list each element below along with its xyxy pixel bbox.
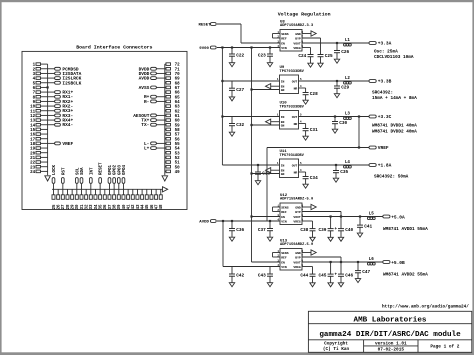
wire: [41, 156, 48, 158]
capacitor C35: [333, 165, 348, 178]
svg-text:I2SBCLK: I2SBCLK: [62, 80, 81, 86]
ground: [333, 178, 338, 182]
capacitor C31: [303, 124, 318, 137]
svg-text:C44: C44: [300, 274, 308, 279]
svg-text:GPO3: GPO3: [118, 164, 122, 175]
J2 pin 59: [166, 123, 180, 128]
wire: [127, 189, 129, 195]
junction: [221, 80, 223, 82]
wire: [41, 152, 48, 154]
wire +1.8A rail: [299, 164, 370, 166]
regulator U11 TPS79318DBV: [277, 150, 305, 177]
junction: [359, 215, 361, 217]
ground: [229, 237, 234, 241]
net RST: [61, 167, 66, 195]
svg-text:ADP7159ARDZ-3.3: ADP7159ARDZ-3.3: [280, 24, 314, 28]
net +1.8A: [369, 163, 392, 169]
svg-text:REF: REF: [281, 36, 287, 40]
J3 pin 36: [103, 195, 108, 210]
wire VREF: [358, 117, 360, 148]
net I2SBCLK: [41, 80, 82, 86]
J2 pin 69: [166, 77, 180, 82]
svg-text:WM8741 DVDD1 40mA: WM8741 DVDD1 40mA: [372, 124, 417, 129]
svg-text:69: 69: [175, 78, 181, 82]
J2 pin 65: [166, 95, 180, 100]
wire bus to U11: [252, 173, 280, 175]
net DVDD: [139, 66, 166, 72]
J2 pin 61: [166, 114, 180, 119]
ground: [328, 283, 333, 287]
svg-text:19: 19: [30, 148, 36, 152]
J3 pin 35: [99, 195, 104, 210]
svg-text:VIN: VIN: [281, 265, 287, 269]
svg-text:OUT: OUT: [292, 115, 298, 119]
wire: [165, 105, 166, 107]
ground: [303, 184, 308, 188]
J1 pin 17: [30, 137, 40, 142]
svg-text:C25: C25: [325, 54, 333, 59]
wire right pin bus: [164, 64, 166, 175]
svg-text:IN: IN: [281, 163, 285, 167]
ground: [229, 63, 234, 67]
J1 pin 19: [30, 147, 40, 152]
svg-text:43: 43: [137, 204, 141, 210]
svg-text:52: 52: [175, 157, 181, 161]
net AESOUT: [133, 113, 166, 119]
net INT: [89, 167, 94, 195]
svg-text:VREG: VREG: [293, 265, 301, 269]
wire: [66, 189, 68, 195]
junction: [330, 215, 332, 217]
svg-text:10: 10: [30, 106, 36, 110]
wire: [165, 156, 166, 158]
net RX2+: [41, 99, 74, 105]
svg-text:(C) Ti Kan: (C) Ti Kan: [323, 347, 350, 352]
wire: [41, 128, 48, 130]
svg-text:C35: C35: [340, 170, 348, 175]
svg-text:C42: C42: [236, 274, 244, 279]
junction: [334, 115, 336, 117]
svg-text:C26: C26: [341, 50, 349, 55]
J3 pin 46: [150, 195, 155, 210]
wire AVDD rail: [217, 220, 280, 222]
svg-text:60: 60: [175, 120, 181, 124]
net 9V00: [199, 46, 216, 51]
wire: [165, 91, 166, 93]
svg-text:VOUT: VOUT: [293, 41, 301, 45]
svg-text:C24: C24: [298, 54, 306, 59]
svg-text:L2: L2: [345, 77, 351, 81]
svg-text:C39: C39: [318, 228, 326, 233]
J2 pin 71: [166, 67, 180, 72]
net SDA: [80, 167, 85, 195]
ground: [355, 279, 360, 283]
svg-text:C34: C34: [310, 176, 318, 181]
ground: [338, 283, 343, 287]
svg-text:+1.8A: +1.8A: [378, 163, 392, 169]
capacitor C39: [318, 217, 333, 238]
svg-text:Voltage Regulation: Voltage Regulation: [278, 12, 331, 18]
svg-text:53: 53: [175, 152, 181, 156]
svg-text:NR: NR: [294, 170, 298, 174]
svg-text:25: 25: [53, 204, 57, 210]
svg-text:51: 51: [175, 162, 181, 166]
wire: [165, 110, 166, 112]
junction: [250, 172, 252, 174]
net I2SLRCK: [41, 76, 82, 82]
svg-text:SCL: SCL: [76, 167, 80, 175]
svg-text:C32: C32: [236, 123, 244, 128]
wire: [41, 133, 48, 135]
ground bus arrow: [162, 176, 168, 181]
svg-text:VOUT: VOUT: [293, 215, 301, 219]
svg-text:VREG: VREG: [293, 46, 301, 50]
svg-text:59: 59: [175, 124, 181, 128]
wire 9V00 to U11 IN: [222, 164, 279, 166]
wire: [104, 189, 106, 195]
svg-text:24: 24: [30, 171, 36, 175]
wire: [165, 82, 166, 84]
net RX3+: [41, 108, 74, 114]
wire: [41, 170, 48, 172]
net GPO4: [122, 164, 127, 194]
junction: [250, 88, 252, 90]
wire AVDD to U13: [222, 221, 224, 267]
svg-text:C27: C27: [236, 88, 244, 93]
svg-text:+5.0A: +5.0A: [391, 214, 405, 220]
wire U9 NR: [299, 87, 306, 89]
svg-text:11: 11: [30, 110, 36, 114]
ground: [310, 283, 315, 287]
capacitor C33: [255, 165, 270, 181]
svg-text:C31: C31: [310, 128, 318, 133]
svg-text:RST: RST: [62, 167, 66, 175]
flag U10 EN: [266, 119, 271, 124]
capacitor C41: [357, 217, 372, 234]
capacitor C38: [300, 221, 315, 237]
J1 pin 22: [30, 161, 40, 166]
J3 pin 25: [52, 195, 57, 210]
net RX3-: [41, 113, 74, 119]
inductor L4: [344, 161, 352, 168]
J2 pin 63: [166, 105, 180, 110]
svg-text:39: 39: [118, 204, 122, 210]
svg-text:BYP: BYP: [295, 210, 301, 214]
ground: [303, 100, 308, 104]
svg-text:OUT: OUT: [292, 79, 298, 83]
J1 pin 20: [30, 151, 40, 156]
J1 pin 24: [30, 170, 40, 175]
wire 9V00 rail: [217, 47, 280, 49]
wire +3.3C rail: [299, 116, 370, 118]
ground: [255, 181, 260, 185]
svg-text:28: 28: [67, 204, 71, 210]
inductor L1: [344, 39, 352, 46]
wire: [160, 189, 162, 195]
junction: [269, 220, 271, 222]
svg-text:EN: EN: [281, 41, 285, 45]
svg-text:L4: L4: [345, 161, 351, 165]
ground: [334, 59, 339, 63]
svg-text:38: 38: [114, 204, 118, 210]
svg-text:68: 68: [175, 82, 181, 86]
svg-text:C40: C40: [345, 228, 353, 233]
svg-text:34: 34: [95, 204, 99, 210]
flag U9 EN: [266, 84, 271, 89]
svg-text:http://www.amb.org/audio/gamma: http://www.amb.org/audio/gamma24/: [382, 304, 469, 309]
wire U8 VREG: [302, 47, 311, 49]
svg-text:56: 56: [175, 138, 181, 142]
J1 pin 3: [33, 72, 41, 77]
capacitor C25: [318, 38, 333, 63]
J1 pin 21: [30, 156, 40, 161]
svg-text:47: 47: [156, 204, 160, 210]
inductor L5: [367, 212, 375, 219]
J1 pin 11: [30, 109, 40, 114]
capacitor C27: [229, 81, 244, 97]
svg-text:GPO4: GPO4: [123, 164, 127, 175]
net RESET: [99, 162, 104, 195]
wire 9V00 to U9 IN: [222, 80, 279, 82]
wire left pin bus: [47, 64, 49, 175]
svg-text:TPS79333DBV: TPS79333DBV: [280, 106, 305, 110]
net RX1+: [41, 90, 74, 96]
svg-text:+5.0B: +5.0B: [391, 260, 405, 266]
capacitor C45: [318, 262, 333, 283]
wire: [165, 128, 166, 130]
net RX4-: [41, 122, 74, 128]
wire +5.0B rail: [302, 261, 383, 263]
svg-text:54: 54: [175, 148, 181, 152]
svg-text:GND: GND: [295, 205, 301, 209]
net RX1-: [41, 94, 74, 100]
svg-text:AVSS: AVSS: [139, 85, 150, 91]
wire bus to U10: [252, 124, 280, 126]
svg-text:41: 41: [128, 204, 132, 210]
J1 pin 2: [33, 67, 41, 72]
wire: [41, 86, 48, 88]
wire: [155, 189, 157, 195]
svg-text:72: 72: [175, 64, 181, 68]
svg-text:SRC4392:: SRC4392:: [372, 90, 393, 95]
wire U13 SENS REF tie: [273, 252, 281, 254]
net I2SDATA: [41, 71, 82, 77]
junction: [269, 46, 271, 48]
J1 pin 9: [33, 100, 41, 105]
J3 pin 42: [131, 195, 136, 210]
J3 pin 45: [145, 195, 150, 210]
regulator U8 ADP7159ARDZ-3.3: [277, 20, 314, 51]
svg-text:13: 13: [30, 120, 36, 124]
svg-text:EN: EN: [281, 260, 285, 264]
wire U12 VREG: [302, 220, 313, 222]
svg-text:RESET: RESET: [100, 162, 104, 175]
svg-text:RESET: RESET: [199, 23, 212, 27]
wire: [165, 161, 166, 163]
capacitor C42: [229, 267, 244, 283]
wire U12 EN: [252, 216, 281, 218]
svg-text:Page 1 of 2: Page 1 of 2: [430, 345, 459, 350]
svg-text:31: 31: [81, 204, 85, 210]
J2 pin 49: [166, 170, 180, 175]
junction: [231, 46, 233, 48]
net DVDD: [139, 71, 166, 77]
junction: [221, 115, 223, 117]
svg-text:SRC4392: 50mA: SRC4392: 50mA: [374, 174, 409, 179]
net RESET: [199, 23, 217, 28]
wire: [41, 161, 48, 163]
J3 pin 30: [75, 195, 80, 210]
svg-text:VREG: VREG: [293, 219, 301, 223]
svg-text:17: 17: [30, 138, 36, 142]
ground: [229, 132, 234, 136]
inductor L3: [344, 112, 352, 119]
capacitor C36: [229, 221, 244, 237]
wire 9V00 to U10 IN: [222, 116, 279, 118]
svg-text:C41: C41: [364, 225, 372, 230]
wire: [165, 138, 166, 140]
svg-text:49: 49: [175, 171, 181, 175]
J2 pin 56: [166, 137, 180, 142]
inductor L6: [367, 258, 375, 265]
wire: [165, 152, 166, 154]
wire U12 GND to flag: [302, 206, 311, 208]
J2 pin 51: [166, 161, 180, 166]
J2 pin 52: [166, 156, 180, 161]
svg-text:18: 18: [30, 143, 36, 147]
svg-text:L5: L5: [369, 212, 375, 216]
svg-text:GPO2: GPO2: [114, 164, 118, 175]
wire enable bus down: [251, 48, 253, 263]
capacitor C24: [298, 48, 313, 64]
svg-text:ADP7159ARDZ-5.0: ADP7159ARDZ-5.0: [280, 198, 313, 202]
J1 pin 7: [33, 91, 41, 96]
svg-text:VIN: VIN: [281, 46, 287, 50]
ground: [267, 237, 272, 241]
J3 pin 38: [113, 195, 118, 210]
net AVDD: [199, 220, 216, 225]
svg-text:WM8741 AVDD1 55mA: WM8741 AVDD1 55mA: [383, 227, 428, 232]
svg-text:C28: C28: [310, 92, 318, 97]
svg-text:AVDD: AVDD: [199, 221, 209, 225]
svg-text:R-: R-: [144, 99, 149, 105]
wire: [41, 63, 48, 65]
svg-text:BYP: BYP: [295, 36, 301, 40]
svg-text:INT: INT: [90, 167, 94, 175]
flag output: [311, 31, 316, 36]
svg-text:16: 16: [30, 134, 36, 138]
J2 pin 53: [166, 151, 180, 156]
J1 pin 4: [33, 77, 41, 82]
J2 pin 70: [166, 72, 180, 77]
svg-text:C29: C29: [341, 86, 349, 91]
svg-text:VREF: VREF: [62, 141, 73, 147]
J1 pin 14: [30, 123, 40, 128]
capacitor C32: [229, 117, 244, 133]
svg-text:C37: C37: [258, 228, 266, 233]
wire: [165, 166, 166, 168]
svg-text:IN: IN: [281, 79, 285, 83]
capacitor C37: [258, 221, 273, 237]
net +5.0B: [383, 260, 405, 266]
capacitor C28: [303, 88, 318, 100]
wire 9V00 bus down: [221, 48, 223, 166]
junction: [335, 164, 337, 166]
capacitor C26: [334, 43, 349, 59]
svg-text:C43: C43: [258, 274, 266, 279]
svg-text:21: 21: [30, 157, 36, 161]
svg-text:+3.3A: +3.3A: [378, 41, 392, 47]
net AVSS: [139, 85, 166, 91]
svg-text:GND: GND: [295, 251, 301, 255]
svg-text:RX4-: RX4-: [62, 122, 73, 128]
J1 pin 5: [33, 81, 41, 86]
net VREF: [41, 141, 74, 147]
J3 pin 48: [159, 195, 164, 210]
svg-text:55: 55: [175, 143, 181, 147]
J2 pin 66: [166, 91, 180, 96]
capacitor C34: [303, 172, 318, 184]
wire bottom pin bus: [52, 188, 163, 190]
svg-text:9V00: 9V00: [199, 47, 209, 51]
connector box outline: [22, 51, 187, 209]
J1 pin 15: [30, 128, 40, 133]
svg-text:GPO1: GPO1: [109, 164, 113, 175]
flag output: [311, 204, 316, 209]
J3 pin 31: [80, 195, 85, 210]
inductor L2: [344, 77, 352, 84]
net VREF: [369, 145, 389, 151]
svg-text:14: 14: [30, 124, 36, 128]
J2 pin 58: [166, 128, 180, 133]
junction: [358, 146, 360, 148]
svg-text:66: 66: [175, 92, 181, 96]
net R-: [144, 99, 166, 105]
junction: [358, 115, 360, 117]
ground: [334, 94, 339, 98]
svg-text:LOCK: LOCK: [53, 164, 57, 175]
J1 pin 13: [30, 119, 40, 124]
svg-text:IN: IN: [281, 115, 285, 119]
svg-text:65: 65: [175, 96, 181, 100]
svg-text:22: 22: [30, 162, 36, 166]
svg-text:12: 12: [30, 115, 36, 119]
J3 pin 39: [117, 195, 122, 210]
wire U10 NR: [299, 123, 306, 125]
net LOCK: [52, 164, 57, 194]
capacitor C23: [258, 48, 273, 63]
svg-text:70: 70: [175, 73, 181, 77]
svg-text:OUT: OUT: [292, 163, 298, 167]
J3 pin 43: [136, 195, 141, 210]
svg-text:TPS79333DBV: TPS79333DBV: [280, 70, 305, 74]
svg-text:Copyright: Copyright: [324, 342, 348, 347]
J1 pin 16: [30, 133, 40, 138]
ground: [318, 63, 323, 67]
svg-text:44: 44: [142, 204, 146, 210]
net AVDD: [139, 76, 166, 82]
regulator U13 ADP7159ARDZ-5.0: [277, 239, 313, 270]
ground: [229, 283, 234, 287]
svg-text:C38: C38: [300, 228, 308, 233]
capacitor C46: [335, 273, 354, 283]
wire U8 BYP: [302, 37, 321, 39]
J3 pin 40: [122, 195, 127, 210]
regulator U10 TPS79333DBV: [277, 102, 305, 129]
wire: [85, 189, 87, 195]
J1 pin 18: [30, 142, 40, 147]
junction: [221, 46, 223, 48]
